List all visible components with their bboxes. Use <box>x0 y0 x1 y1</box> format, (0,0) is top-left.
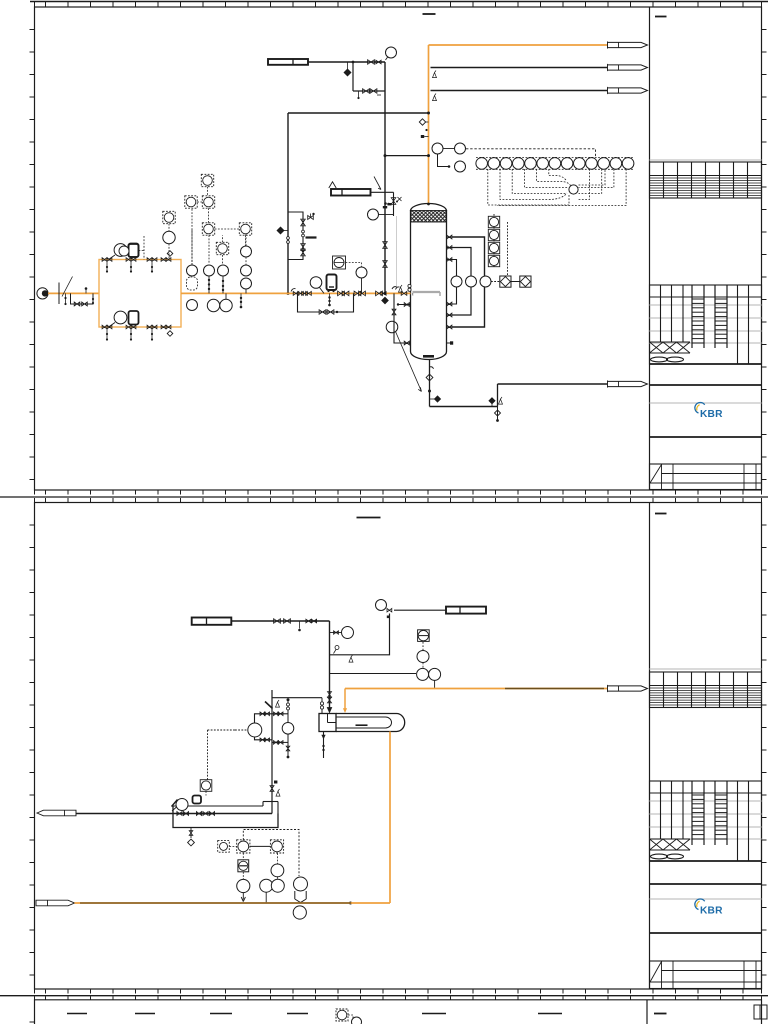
bottoms drain <box>497 407 499 420</box>
title bottom box <box>650 464 762 490</box>
column C-1 shell <box>411 204 447 360</box>
pump pair <box>207 299 219 311</box>
title block divider <box>649 7 651 490</box>
station valves <box>293 291 299 295</box>
issue/approval grid <box>650 781 762 861</box>
inlet arrowhead <box>327 708 331 713</box>
triangle vent above label <box>329 182 336 188</box>
long line y113 to column riser <box>288 112 429 114</box>
page 2 frame <box>35 503 762 990</box>
valve on line <box>368 60 375 65</box>
box top drains <box>106 262 108 271</box>
control valve body <box>295 891 306 903</box>
manifold valves <box>177 812 182 816</box>
exchanger inlet stubs <box>321 698 323 714</box>
header junction dots <box>384 154 387 157</box>
branch y673 <box>330 673 417 675</box>
feed block valve <box>401 291 407 295</box>
page 3 title divider <box>646 1000 648 1024</box>
box bottom control valve <box>114 311 127 324</box>
bottoms riser <box>497 384 499 407</box>
page 3 label dashes <box>67 1013 87 1015</box>
analyzer AT <box>237 840 250 853</box>
sample probe circle <box>237 879 250 892</box>
leader line <box>374 177 381 190</box>
instrument chain above exchanger <box>418 630 430 642</box>
page 1 top center label dash <box>423 13 436 15</box>
thermocouple row <box>476 157 634 169</box>
box top valves <box>102 258 107 262</box>
title block label dash <box>655 16 667 18</box>
black diamond instrument <box>344 62 351 76</box>
column demister pad <box>411 211 447 223</box>
page 3 border ticks <box>46 996 744 1000</box>
branch line y156 to column riser <box>385 155 429 157</box>
PI circle <box>330 632 342 634</box>
drip leg <box>329 293 331 304</box>
recirc header x288 <box>287 113 289 293</box>
hook right <box>396 287 400 290</box>
analyzer AE square <box>218 841 237 853</box>
valve circle below line <box>293 906 306 919</box>
main vertical header x385 <box>384 62 386 293</box>
drawing info lines <box>650 384 762 386</box>
node dot <box>314 620 317 623</box>
orange feed line left segment <box>48 292 99 294</box>
column boot label <box>423 355 434 358</box>
page 3 title dash <box>654 1013 667 1015</box>
top line to connector <box>394 609 446 611</box>
weld x-mark <box>398 197 402 201</box>
manifold box <box>173 806 278 828</box>
small bowtie <box>376 60 381 64</box>
off-page connector label (bold) <box>331 189 371 196</box>
valves on header <box>383 242 388 249</box>
inlet drain <box>299 621 301 629</box>
chain x246 <box>245 234 247 246</box>
equipment leader <box>396 332 422 392</box>
instrument stack beside column <box>493 214 495 268</box>
controller square <box>333 256 346 269</box>
vent circle top <box>376 600 387 611</box>
vapor line 3 <box>431 90 608 92</box>
control pair circles <box>276 853 278 864</box>
revision grid <box>650 669 762 708</box>
chain x209 <box>204 265 215 276</box>
manifold drain <box>190 828 192 839</box>
condenser TI circles <box>432 143 443 154</box>
drawing info lines <box>650 883 762 885</box>
inlet meter runs cluster <box>208 690 294 814</box>
page2 inlet connector label <box>192 618 232 625</box>
page 2 top center label dash <box>357 517 381 519</box>
chain x223 <box>216 242 228 254</box>
box bottom drains <box>106 329 108 339</box>
box top control valve <box>114 244 127 257</box>
tap dot <box>428 390 431 393</box>
issue/approval grid <box>650 285 762 364</box>
revision grid <box>650 160 762 198</box>
junction dots on riser <box>427 112 430 115</box>
vapor line 2 <box>431 67 608 69</box>
valve diamond on run <box>489 398 495 404</box>
corner down <box>393 192 395 216</box>
orange product line from exchanger <box>345 688 607 690</box>
feed bypass loop <box>71 293 94 304</box>
line break bar <box>58 283 60 305</box>
bottoms line to connector <box>498 383 608 385</box>
restriction orifice <box>306 236 317 238</box>
taps on header <box>287 237 290 240</box>
exchanger bottom outlet <box>323 732 325 759</box>
page 1 frame <box>35 7 762 490</box>
line node <box>349 902 352 905</box>
leg valves <box>328 692 332 698</box>
pressure gauge circle <box>368 209 379 220</box>
bottoms horizontal run <box>430 406 498 408</box>
bypass loop under line <box>298 293 354 312</box>
page2 feed connector (left) <box>37 810 76 816</box>
chain x192 <box>191 230 193 265</box>
branch down <box>352 62 354 91</box>
riser tap mark <box>421 135 424 138</box>
parallel warmup line <box>173 805 263 807</box>
control valve actuator <box>310 277 322 289</box>
positioner pill <box>193 796 202 804</box>
inlet line <box>231 620 329 622</box>
hook fitting <box>392 287 397 289</box>
drain valve diamond <box>435 396 441 402</box>
local panel pill <box>119 244 144 257</box>
drop below line <box>240 293 242 306</box>
svg-text:KBR: KBR <box>700 906 723 917</box>
transmitter circle <box>356 267 367 278</box>
left wall stub 304 <box>398 304 411 306</box>
thin existing line <box>396 216 398 289</box>
product connector arrow <box>608 686 648 691</box>
sample conditioner <box>242 853 244 860</box>
manifold slash <box>172 800 178 807</box>
page 3 frame top <box>35 1000 762 1024</box>
column drain loop <box>394 293 404 343</box>
orange outlet from tube side <box>389 732 391 904</box>
right wall stub w cap <box>447 342 451 344</box>
hook <box>430 367 434 369</box>
thermocouple loop bundle <box>488 169 626 206</box>
page 1 border ticks <box>46 2 744 8</box>
valve positioner circle <box>294 877 308 891</box>
manifold pump circle <box>176 799 188 811</box>
off-page connector label top-left <box>268 59 308 65</box>
dashed signal into box <box>143 236 145 260</box>
bottoms outlet line <box>429 360 431 407</box>
double tap <box>408 284 411 287</box>
sample point <box>335 646 339 650</box>
drain stub <box>65 293 67 303</box>
page 0 bottom edge <box>30 1 768 3</box>
recirc loop branch <box>288 212 303 260</box>
spec break diamond <box>426 374 433 381</box>
orange long line <box>75 902 391 904</box>
manifold lower valves <box>270 786 274 792</box>
orange riser to column top <box>428 45 430 204</box>
loop taps <box>302 230 305 233</box>
instrument taps on header <box>384 202 387 205</box>
note balloon circle <box>386 321 398 333</box>
lower TI circle <box>438 154 450 167</box>
title block label dash <box>655 513 667 515</box>
gauge glass squares <box>491 281 500 283</box>
riser instrument diamond <box>419 119 425 125</box>
black diamond valve <box>277 227 284 234</box>
drain diamond below orange line <box>382 297 388 303</box>
page 3 right box <box>754 1005 767 1019</box>
long dashed signal <box>466 149 596 158</box>
signal to transmitter <box>346 263 362 267</box>
page separator 2-3 <box>0 995 768 997</box>
feed origin node <box>37 288 48 299</box>
box spec diamonds <box>167 251 173 257</box>
positioner pill <box>327 275 337 293</box>
dark overlap segment <box>505 688 604 690</box>
KBR logo <box>695 899 723 916</box>
page 2 border ticks <box>46 498 744 503</box>
inlet valves <box>274 619 281 624</box>
branch y655 loop <box>330 614 390 655</box>
analyzer AIC <box>270 840 283 853</box>
title block divider <box>649 503 651 990</box>
orange drop to exchanger <box>344 689 346 712</box>
orange overhead line <box>429 44 608 46</box>
line from connector to vertical header <box>308 61 385 63</box>
page 3 instrument <box>336 1009 348 1021</box>
pipe slash <box>62 277 73 297</box>
title bottom box <box>650 961 762 989</box>
orange scope box <box>99 260 181 328</box>
box bottom valves <box>102 325 107 329</box>
level transmitter circles <box>451 276 462 287</box>
shared display instruments tree <box>163 174 252 264</box>
riser small tick <box>425 129 427 131</box>
feed distributor internal <box>413 293 441 297</box>
station right valves <box>376 291 383 296</box>
node dot <box>352 61 355 64</box>
top-right connector label <box>446 607 486 614</box>
vent flags <box>433 71 437 78</box>
svg-text:KBR: KBR <box>700 409 723 420</box>
KBR logo <box>695 403 723 420</box>
overhead connector arrow <box>608 42 648 47</box>
line from label <box>371 191 394 193</box>
hook at header bottom <box>291 289 296 292</box>
dark overlap on bottom line <box>80 902 351 904</box>
bypass line <box>353 90 385 92</box>
tap mark <box>388 203 392 205</box>
exchanger E-1 <box>319 714 405 732</box>
column level nozzles & bridles <box>447 236 452 238</box>
valve <box>391 198 396 205</box>
feed line <box>76 813 272 815</box>
orange feed main line <box>181 292 411 294</box>
vent circle <box>386 47 397 58</box>
drain stubs <box>358 91 360 97</box>
drop leg to exchanger <box>329 621 331 711</box>
manifold instrument <box>200 780 212 792</box>
page2 bottom orange connector <box>36 900 75 906</box>
gate valves on bypass <box>363 89 370 94</box>
page separator 1-2 <box>0 496 768 498</box>
actuated valve <box>308 213 315 220</box>
multiplexer circle <box>569 185 578 194</box>
analyzer signal loop <box>243 830 299 877</box>
loop valves <box>301 219 306 226</box>
